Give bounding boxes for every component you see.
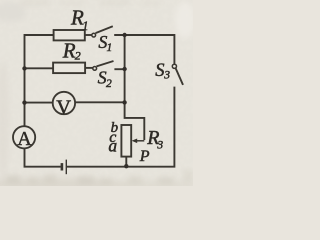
ammeter A circle [13,126,35,148]
wire R1 to S1 terminal [85,34,92,36]
node dot bottom rail/R3 [124,164,128,168]
svg-text:A: A [17,128,32,150]
wire left bus below ammeter to battery [25,148,61,167]
resistor R2 [53,63,85,74]
node dot mid bus/voltmeter [122,100,126,104]
switch S3 [172,64,183,85]
svg-text:a: a [108,136,117,156]
svg-text:V: V [56,96,71,118]
wire battery to bottom-right corner up to S3 blade [67,87,174,167]
wire R2 left [25,67,54,69]
wiper arrow of R3 [132,139,145,144]
svg-text:2: 2 [75,49,81,63]
svg-text:3: 3 [156,140,163,152]
node dot left bus/R2 [22,66,26,70]
(decorative scan show-through, not labelled) [6,175,20,183]
svg-text:P: P [139,148,150,165]
rheostat R3 body [121,125,131,157]
resistor R1 [54,30,85,40]
svg-text:S: S [155,61,164,81]
wire mid bus and wiper feed [125,35,145,140]
wire R3 stem to bottom rail [125,157,127,167]
wire top-left rail and left bus [25,35,54,127]
svg-text:R: R [62,39,76,63]
wire R2 to S2 terminal [85,67,93,69]
node dot left bus/voltmeter [22,100,26,104]
svg-text:2: 2 [106,78,112,90]
wire S2 to mid bus [114,68,124,70]
voltmeter V circle [53,92,75,114]
wire S1 to top rail right corner and down to S3 [114,35,174,64]
wire voltmeter left [25,102,53,104]
battery cell [62,160,66,175]
paper background [0,0,193,186]
wire voltmeter right [75,101,124,103]
svg-text:1: 1 [82,19,88,33]
switch S1 [92,26,113,37]
node dot top rail/S1 [122,33,126,37]
svg-text:1: 1 [107,42,113,54]
node dot mid bus/S2 [122,67,126,71]
switch S2 [93,61,114,70]
svg-text:3: 3 [163,70,170,82]
